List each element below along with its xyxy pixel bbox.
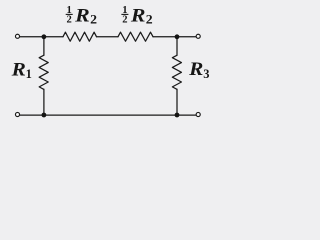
terminal top-left (15, 34, 19, 38)
wire right branch lower (176, 89, 178, 115)
wire top-right segment (153, 36, 196, 38)
terminal bottom-left (15, 112, 19, 116)
label 1/2 R2 (right) (121, 5, 152, 27)
terminal top-right (196, 34, 200, 38)
wire bottom rail (20, 114, 197, 116)
svg-text:2: 2 (122, 15, 127, 26)
node junction bottom-left (42, 113, 47, 118)
wire left branch lower (43, 89, 45, 115)
svg-text:R: R (130, 5, 146, 26)
svg-text:R: R (188, 59, 203, 80)
wire top-middle segment (97, 36, 119, 38)
wire left branch upper (43, 37, 45, 56)
wires and resistors group (20, 32, 197, 115)
node junction bottom-right (175, 113, 180, 118)
label 1/2 R2 (left) (66, 5, 97, 27)
svg-text:R: R (10, 59, 25, 80)
resistor R1 (39, 55, 48, 89)
wire top-left segment (20, 36, 63, 38)
svg-text:3: 3 (203, 67, 209, 81)
resistor R3 (172, 55, 181, 89)
node junction top-right (175, 34, 180, 39)
resistor R2a (1/2 R2, left) (63, 32, 97, 41)
svg-text:1: 1 (26, 67, 32, 81)
node junction top-left (42, 34, 47, 39)
svg-text:R: R (74, 5, 90, 26)
svg-text:2: 2 (67, 15, 72, 26)
svg-text:2: 2 (90, 12, 97, 27)
resistor R2b (1/2 R2, right) (118, 32, 153, 41)
label R3 (188, 59, 209, 81)
wire right branch upper (176, 37, 178, 56)
svg-text:2: 2 (146, 12, 153, 27)
label R1 (10, 59, 31, 81)
terminal bottom-right (196, 112, 200, 116)
